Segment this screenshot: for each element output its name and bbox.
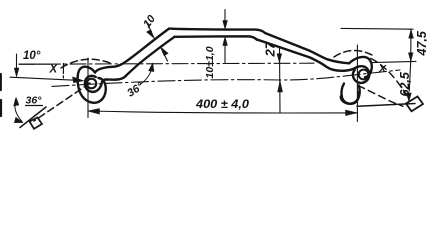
solid flange right lower edge bbox=[357, 104, 415, 107]
10-degree leg line with arrow to curl bbox=[10, 77, 80, 80]
svg-text:10±1,0: 10±1,0 bbox=[204, 46, 216, 78]
dashed flange left upper edge bbox=[34, 83, 90, 121]
crown bottom line bbox=[175, 36, 258, 40]
extension line left for 400 bbox=[87, 58, 89, 118]
right flange tip parallelogram bbox=[406, 97, 423, 112]
solid flange left lower edge bbox=[20, 107, 46, 128]
svg-text:10: 10 bbox=[141, 12, 158, 30]
svg-text:62,5: 62,5 bbox=[398, 71, 412, 96]
dimension 27 vertical line with arrows bbox=[279, 48, 282, 113]
right curl outer loop bbox=[341, 84, 359, 104]
svg-text:400 ± 4,0: 400 ± 4,0 bbox=[195, 97, 249, 111]
left flange tip cap bbox=[30, 118, 43, 129]
right curl top hook bbox=[349, 57, 372, 77]
left curl outer loop bbox=[78, 67, 106, 103]
dashed flange right second edge bbox=[358, 86, 403, 107]
svg-text:X: X bbox=[378, 63, 387, 75]
svg-text:36°: 36° bbox=[26, 95, 43, 107]
36-degree angle arc with arrowheads left bbox=[15, 100, 22, 122]
left curl ring bbox=[87, 79, 97, 89]
left web outer line bbox=[95, 29, 169, 73]
svg-text:10°: 10° bbox=[23, 50, 41, 62]
svg-text:36°: 36° bbox=[125, 80, 146, 99]
thickness 10 leader arrows on left web bbox=[146, 21, 152, 32]
right curl middle loop bbox=[342, 66, 369, 83]
dashed flange right upper edge bbox=[371, 59, 408, 97]
svg-text:X: X bbox=[49, 64, 59, 76]
svg-text:47,5: 47,5 bbox=[415, 30, 427, 56]
dimension line 400±4,0 with arrowheads bbox=[88, 111, 357, 113]
svg-text:27: 27 bbox=[263, 41, 278, 57]
left curl middle loop (sheet inner) bbox=[85, 76, 106, 92]
right vertical dimension line 47,5 and 62,5 bbox=[409, 29, 411, 91]
right web outer line bbox=[265, 33, 349, 63]
dimension 10±1,0 arrows at crown bbox=[224, 10, 226, 22]
centerline A dash-dot horizontal bbox=[19, 62, 314, 65]
extension line right for 400 bbox=[356, 45, 358, 122]
right curl bottom lobe bbox=[341, 92, 359, 104]
36-degree angle arc middle with arrowhead bbox=[140, 65, 153, 85]
axis line through curl centers (dash-dot) bbox=[52, 70, 400, 86]
left web inner line bbox=[106, 37, 175, 80]
left edge scan artifacts bbox=[0, 74, 2, 116]
crown top extension line to right dimension bbox=[341, 27, 413, 30]
36-degree underline left bbox=[26, 105, 43, 107]
crown top line bbox=[169, 29, 265, 33]
dashed arc over left curl bbox=[61, 59, 110, 68]
dashed arc over right curl bbox=[334, 50, 372, 57]
X section marker tick left bbox=[62, 64, 64, 79]
vertical arrow of 10-degree callout bbox=[16, 54, 18, 75]
right curl ring bbox=[359, 70, 369, 80]
right web inner line bbox=[257, 40, 342, 71]
